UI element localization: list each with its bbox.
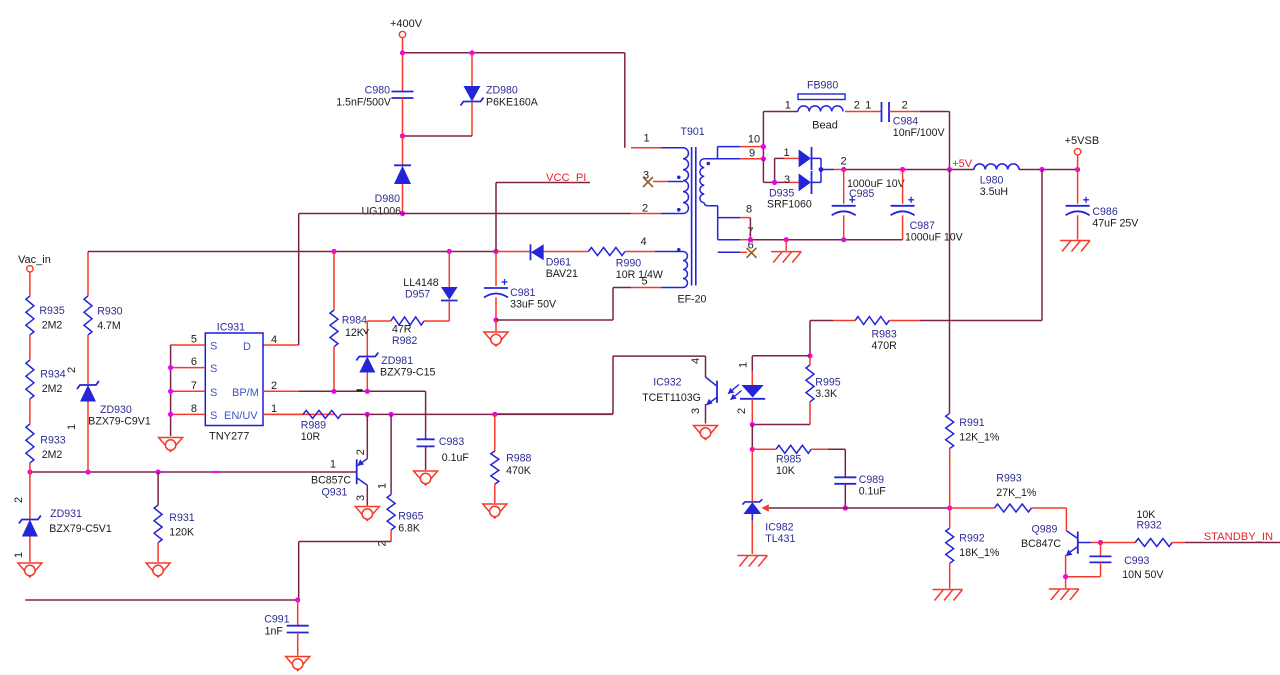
svg-text:S: S xyxy=(210,341,217,353)
junction +400V/C980 xyxy=(400,50,405,55)
svg-text:C981: C981 xyxy=(510,287,535,299)
op-amp U1 IC931 TNY277 xyxy=(171,322,334,443)
svg-text:BP/M: BP/M xyxy=(232,387,259,399)
svg-text:4: 4 xyxy=(690,358,702,364)
transistor Q931 xyxy=(311,414,367,505)
svg-text:1: 1 xyxy=(66,424,78,430)
svg-text:C993: C993 xyxy=(1124,555,1149,567)
svg-text:47R: 47R xyxy=(392,324,412,336)
diode ZD930 xyxy=(66,367,151,472)
svg-text:2M2: 2M2 xyxy=(42,383,63,395)
net STANDBY_IN label xyxy=(1204,531,1273,543)
svg-text:R995: R995 xyxy=(815,377,840,389)
junction EN/UV Q931 xyxy=(365,412,370,417)
capacitor C981 xyxy=(484,252,557,321)
svg-text:Vac_in: Vac_in xyxy=(18,254,51,266)
resistor R965 xyxy=(377,414,424,546)
diode D957 xyxy=(403,252,457,322)
resistor R935 xyxy=(26,296,65,360)
svg-text:LL4148: LL4148 xyxy=(403,277,438,289)
svg-text:Bead: Bead xyxy=(812,120,838,132)
capacitor C986 xyxy=(1066,170,1140,240)
resistor R982 xyxy=(367,317,449,347)
svg-text:470R: 470R xyxy=(872,340,898,352)
junction LED cathode xyxy=(750,422,755,427)
svg-text:0.1uF: 0.1uF xyxy=(442,452,470,464)
svg-text:ZD930: ZD930 xyxy=(100,404,132,416)
svg-text:8: 8 xyxy=(191,403,197,415)
svg-text:C987: C987 xyxy=(910,220,935,232)
resistor R990 xyxy=(588,248,683,282)
wire Q931 base net xyxy=(30,471,357,473)
junction D935 pin3 corner xyxy=(772,180,777,185)
resistor R985 xyxy=(752,445,845,477)
wire pins9/10 to D935 xyxy=(763,158,798,182)
wire IC932 pin4 to EN/UV xyxy=(495,356,706,414)
svg-text:2: 2 xyxy=(642,203,648,215)
svg-text:1: 1 xyxy=(785,100,791,112)
svg-text:C983: C983 xyxy=(439,436,464,448)
wire C984 to +5V rail xyxy=(949,112,951,170)
ground C981 xyxy=(484,320,508,346)
svg-text:+400V: +400V xyxy=(390,18,423,30)
svg-text:10K: 10K xyxy=(776,465,795,477)
svg-text:BAV21: BAV21 xyxy=(546,268,578,280)
svg-text:1.5nF/500V: 1.5nF/500V xyxy=(336,97,392,109)
diode ZD980 xyxy=(461,53,539,136)
wire feedback node xyxy=(769,507,950,509)
wire IC931 source bus xyxy=(170,345,172,436)
diode D935 xyxy=(767,147,847,211)
svg-text:12K: 12K xyxy=(345,327,364,339)
svg-text:6: 6 xyxy=(191,356,197,368)
junction bottom rail C991 xyxy=(295,597,300,602)
junction EN/UV R988 xyxy=(492,412,497,417)
svg-text:S: S xyxy=(210,387,217,399)
svg-text:2: 2 xyxy=(13,497,25,503)
svg-text:S: S xyxy=(210,410,217,422)
no-connect X pin6 xyxy=(747,248,757,258)
svg-text:D980: D980 xyxy=(375,193,400,205)
svg-text:10R 1/4W: 10R 1/4W xyxy=(616,269,663,281)
svg-text:R988: R988 xyxy=(506,453,531,465)
svg-text:2: 2 xyxy=(271,380,277,392)
svg-text:EN/UV: EN/UV xyxy=(224,410,258,422)
svg-text:C986: C986 xyxy=(1092,206,1117,218)
svg-text:BC847C: BC847C xyxy=(1021,538,1061,550)
capacitor C983 xyxy=(417,436,470,470)
svg-text:ZD931: ZD931 xyxy=(50,508,82,520)
junction pin7 xyxy=(748,237,753,242)
wire Q989 emitter loop xyxy=(1066,576,1101,578)
svg-text:2: 2 xyxy=(736,408,748,414)
svg-text:8: 8 xyxy=(746,204,752,216)
svg-text:BZX79-C9V1: BZX79-C9V1 xyxy=(88,416,151,428)
wire C981 gnd / T901 pin5 return xyxy=(496,288,683,321)
net +400V terminal xyxy=(390,18,423,53)
svg-text:1nF: 1nF xyxy=(265,626,284,638)
svg-text:BZX79-C15: BZX79-C15 xyxy=(380,367,435,379)
junction opto anode node xyxy=(807,353,812,358)
svg-text:1: 1 xyxy=(643,133,649,145)
svg-text:R965: R965 xyxy=(398,511,423,523)
wire bottom rail xyxy=(25,599,297,601)
junction bias/D957 xyxy=(447,249,452,254)
svg-text:R933: R933 xyxy=(40,435,65,447)
svg-text:+5VSB: +5VSB xyxy=(1065,135,1100,147)
capacitor C993 xyxy=(1090,543,1165,582)
ground R992 xyxy=(933,590,963,601)
ground C991 xyxy=(286,657,310,671)
junction bus pin8 xyxy=(168,412,173,417)
svg-text:ZD981: ZD981 xyxy=(381,355,413,367)
wire clamp bottom xyxy=(403,135,473,137)
junction +400V/ZD980 xyxy=(469,50,474,55)
svg-text:R984: R984 xyxy=(342,315,367,327)
svg-text:47uF 25V: 47uF 25V xyxy=(1092,218,1139,230)
resistor R932 xyxy=(1101,509,1280,547)
svg-text:BZX79-C5V1: BZX79-C5V1 xyxy=(49,523,112,535)
svg-text:D961: D961 xyxy=(546,257,571,269)
net VCC_PI label xyxy=(496,172,590,252)
tick magenta base xyxy=(213,471,220,473)
capacitor C987 xyxy=(891,170,964,244)
svg-text:10R: 10R xyxy=(301,431,321,443)
tick black BP/M xyxy=(357,389,363,391)
junction bus pin7 xyxy=(168,389,173,394)
svg-text:470K: 470K xyxy=(506,465,531,477)
svg-text:C989: C989 xyxy=(859,474,884,486)
svg-text:R983: R983 xyxy=(872,329,897,341)
capacitor C989 xyxy=(834,449,886,508)
svg-text:D957: D957 xyxy=(405,289,430,301)
ground IC931 xyxy=(159,438,183,452)
svg-text:Q989: Q989 xyxy=(1032,524,1058,536)
svg-text:C991: C991 xyxy=(264,614,289,626)
svg-text:4: 4 xyxy=(271,334,277,346)
junction C981 bottom xyxy=(493,317,498,322)
svg-text:TNY277: TNY277 xyxy=(209,431,249,443)
ground R931 xyxy=(146,563,170,577)
capacitor C984 xyxy=(845,100,950,140)
resistor R931 xyxy=(154,472,195,562)
svg-text:ZD980: ZD980 xyxy=(486,85,518,97)
svg-text:33uF 50V: 33uF 50V xyxy=(510,299,557,311)
svg-text:FB980: FB980 xyxy=(807,80,838,92)
transistor Q989 xyxy=(1021,524,1101,577)
junction pin9 xyxy=(761,156,766,161)
svg-text:Q931: Q931 xyxy=(322,487,348,499)
svg-text:3: 3 xyxy=(355,495,367,501)
junction TL431 top xyxy=(750,447,755,452)
resistor R933 xyxy=(26,424,66,472)
svg-text:L980: L980 xyxy=(980,175,1004,187)
svg-text:1: 1 xyxy=(377,483,389,489)
resistor R993 xyxy=(950,473,1067,513)
junction divider mid xyxy=(947,505,952,510)
capacitor C991 xyxy=(264,600,309,656)
svg-text:BC857C: BC857C xyxy=(311,475,351,487)
svg-text:R993: R993 xyxy=(996,473,1021,485)
junction base/ZD930 xyxy=(85,469,90,474)
ground secondary rail xyxy=(771,240,801,263)
svg-text:C985: C985 xyxy=(849,188,874,200)
svg-text:+5V: +5V xyxy=(952,158,973,170)
svg-text:R990: R990 xyxy=(616,258,641,270)
svg-text:3: 3 xyxy=(690,408,702,414)
wire R983 to opto node xyxy=(809,321,811,356)
svg-text:10N 50V: 10N 50V xyxy=(1122,569,1164,581)
svg-text:TL431: TL431 xyxy=(765,533,795,545)
junction Q989 emitter xyxy=(1063,574,1068,579)
svg-text:10nF/100V: 10nF/100V xyxy=(893,127,946,139)
svg-text:2M2: 2M2 xyxy=(42,449,63,461)
resistor R984 xyxy=(330,252,369,392)
resistor R930 xyxy=(84,296,123,384)
svg-text:C984: C984 xyxy=(893,116,918,128)
svg-text:2: 2 xyxy=(854,100,860,112)
ground IC982 xyxy=(737,556,767,567)
svg-text:12K_1%: 12K_1% xyxy=(959,432,1000,444)
svg-text:R992: R992 xyxy=(959,533,984,545)
junction L980/R983 branch xyxy=(1039,167,1044,172)
svg-text:UG1006: UG1006 xyxy=(362,206,402,218)
transformer T901 xyxy=(631,126,763,306)
svg-text:3.3K: 3.3K xyxy=(815,388,837,400)
svg-text:5: 5 xyxy=(191,334,197,346)
junction C985 bottom xyxy=(841,237,846,242)
junction C989 bottom xyxy=(843,505,848,510)
junction EN/UV R965 xyxy=(389,412,394,417)
diode D961 xyxy=(531,244,589,280)
svg-text:3: 3 xyxy=(784,174,790,186)
svg-text:1: 1 xyxy=(865,100,871,112)
svg-text:2M2: 2M2 xyxy=(42,320,63,332)
svg-text:R932: R932 xyxy=(1137,520,1162,532)
ground Q931 xyxy=(355,507,379,521)
svg-text:R985: R985 xyxy=(776,454,801,466)
net +5V label xyxy=(952,158,973,170)
wire secondary ground rail xyxy=(750,239,902,241)
wire pin7/pin8 tie xyxy=(749,218,751,240)
svg-text:1: 1 xyxy=(271,403,277,415)
junction Q989 base/C993 xyxy=(1098,540,1103,545)
svg-text:1: 1 xyxy=(738,362,750,368)
svg-text:T901: T901 xyxy=(681,126,705,138)
inductor FB980 xyxy=(785,80,860,132)
svg-text:R982: R982 xyxy=(392,335,417,347)
capacitor C980 xyxy=(336,53,413,136)
svg-text:27K_1%: 27K_1% xyxy=(996,487,1037,499)
ground C983 xyxy=(414,471,438,485)
wire EN/UV net xyxy=(263,413,613,415)
diode ZD931 xyxy=(13,472,112,562)
wire opto anode xyxy=(752,355,810,357)
wire R965 to bottom rail xyxy=(299,542,391,601)
junction clamp/D980 xyxy=(400,133,405,138)
resistor R983 xyxy=(810,317,920,353)
ground Q989 xyxy=(1049,577,1079,600)
wire R993 to Q989 collector xyxy=(1065,508,1067,531)
wire opto cathode down xyxy=(751,425,753,450)
svg-text:R931: R931 xyxy=(169,512,194,524)
svg-text:120K: 120K xyxy=(169,527,194,539)
svg-text:2: 2 xyxy=(355,449,367,455)
svg-text:SRF1060: SRF1060 xyxy=(767,199,812,211)
svg-text:4: 4 xyxy=(640,236,646,248)
resistor R991 xyxy=(946,413,1000,508)
junction bus pin6 xyxy=(168,365,173,370)
junction +5VSB xyxy=(1075,167,1080,172)
wire +400V rail xyxy=(403,53,625,148)
diode ZD981 xyxy=(356,321,435,391)
svg-text:IC932: IC932 xyxy=(653,377,681,389)
ground C986 xyxy=(1060,241,1090,252)
svg-text:1: 1 xyxy=(783,147,789,159)
net Vac_in terminal xyxy=(18,254,51,296)
svg-text:R934: R934 xyxy=(40,369,65,381)
svg-text:TCET1103G: TCET1103G xyxy=(642,392,701,404)
resistor R988 xyxy=(491,414,532,503)
svg-text:D: D xyxy=(243,341,251,353)
ground ZD931 xyxy=(18,563,42,577)
svg-text:2: 2 xyxy=(66,367,78,373)
wire +5V to R983 xyxy=(920,170,1042,321)
junction C987 top xyxy=(900,167,905,172)
svg-text:IC982: IC982 xyxy=(765,522,793,534)
svg-text:1: 1 xyxy=(330,459,336,471)
junction BP/M ZD981 xyxy=(365,389,370,394)
svg-text:5: 5 xyxy=(641,276,647,288)
svg-text:9: 9 xyxy=(749,148,755,160)
svg-text:1000uF 10V: 1000uF 10V xyxy=(905,232,964,244)
svg-text:EF-20: EF-20 xyxy=(678,294,707,306)
resistor R934 xyxy=(26,360,66,424)
ground IC932 pin3 xyxy=(694,426,718,440)
svg-text:IC931: IC931 xyxy=(217,322,245,334)
svg-text:10: 10 xyxy=(748,134,760,146)
junction bias/R984 xyxy=(331,249,336,254)
wire R991 top xyxy=(949,170,951,414)
svg-text:18K_1%: 18K_1% xyxy=(959,547,1000,559)
wire drain net (IC931 D to T901 pin2) xyxy=(263,214,661,346)
svg-text:STANDBY_IN: STANDBY_IN xyxy=(1204,531,1273,543)
svg-text:1: 1 xyxy=(13,552,25,558)
svg-text:7: 7 xyxy=(191,380,197,392)
resistor R992 xyxy=(946,508,1000,589)
inductor L980 xyxy=(974,164,1019,198)
svg-text:2: 2 xyxy=(840,156,846,168)
junction base/ZD931 xyxy=(27,469,32,474)
svg-text:3.5uH: 3.5uH xyxy=(980,186,1008,198)
junction base/R931 xyxy=(156,469,161,474)
net +5VSB terminal xyxy=(1065,135,1100,170)
svg-text:0.1uF: 0.1uF xyxy=(859,486,887,498)
optocoupler IC932 xyxy=(642,356,765,425)
svg-text:R991: R991 xyxy=(959,417,984,429)
wire BP/M net xyxy=(299,391,426,439)
svg-text:C980: C980 xyxy=(365,85,390,97)
capacitor C985 xyxy=(832,170,906,240)
resistor R995 xyxy=(752,356,840,425)
svg-text:R989: R989 xyxy=(301,420,326,432)
junction BP/M R984 xyxy=(331,389,336,394)
wire T901 pins 9/10 to FB980 xyxy=(763,112,798,159)
no-connect X pin3 xyxy=(643,177,653,187)
junction C984/R991 branch xyxy=(947,167,952,172)
resistor R989 xyxy=(301,410,342,443)
shunt regulator IC982 TL431 xyxy=(742,449,795,554)
svg-text:S: S xyxy=(210,363,217,375)
diode D980 xyxy=(362,136,411,218)
junction bias/C981 xyxy=(493,249,498,254)
junction gnd stub xyxy=(784,237,789,242)
wire VCC bias rail xyxy=(88,252,531,297)
svg-text:P6KE160A: P6KE160A xyxy=(486,97,539,109)
junction C985 top xyxy=(841,167,846,172)
svg-text:VCC_PI: VCC_PI xyxy=(546,172,586,184)
ground R988 xyxy=(483,504,507,518)
svg-text:R930: R930 xyxy=(97,306,122,318)
svg-text:4.7M: 4.7M xyxy=(97,320,121,332)
svg-text:2: 2 xyxy=(902,100,908,112)
junction pin10 xyxy=(761,144,766,149)
svg-text:6.8K: 6.8K xyxy=(398,523,420,535)
svg-text:R935: R935 xyxy=(39,305,64,317)
wire +5V rail xyxy=(844,169,1078,171)
junction D980/drain xyxy=(400,211,405,216)
